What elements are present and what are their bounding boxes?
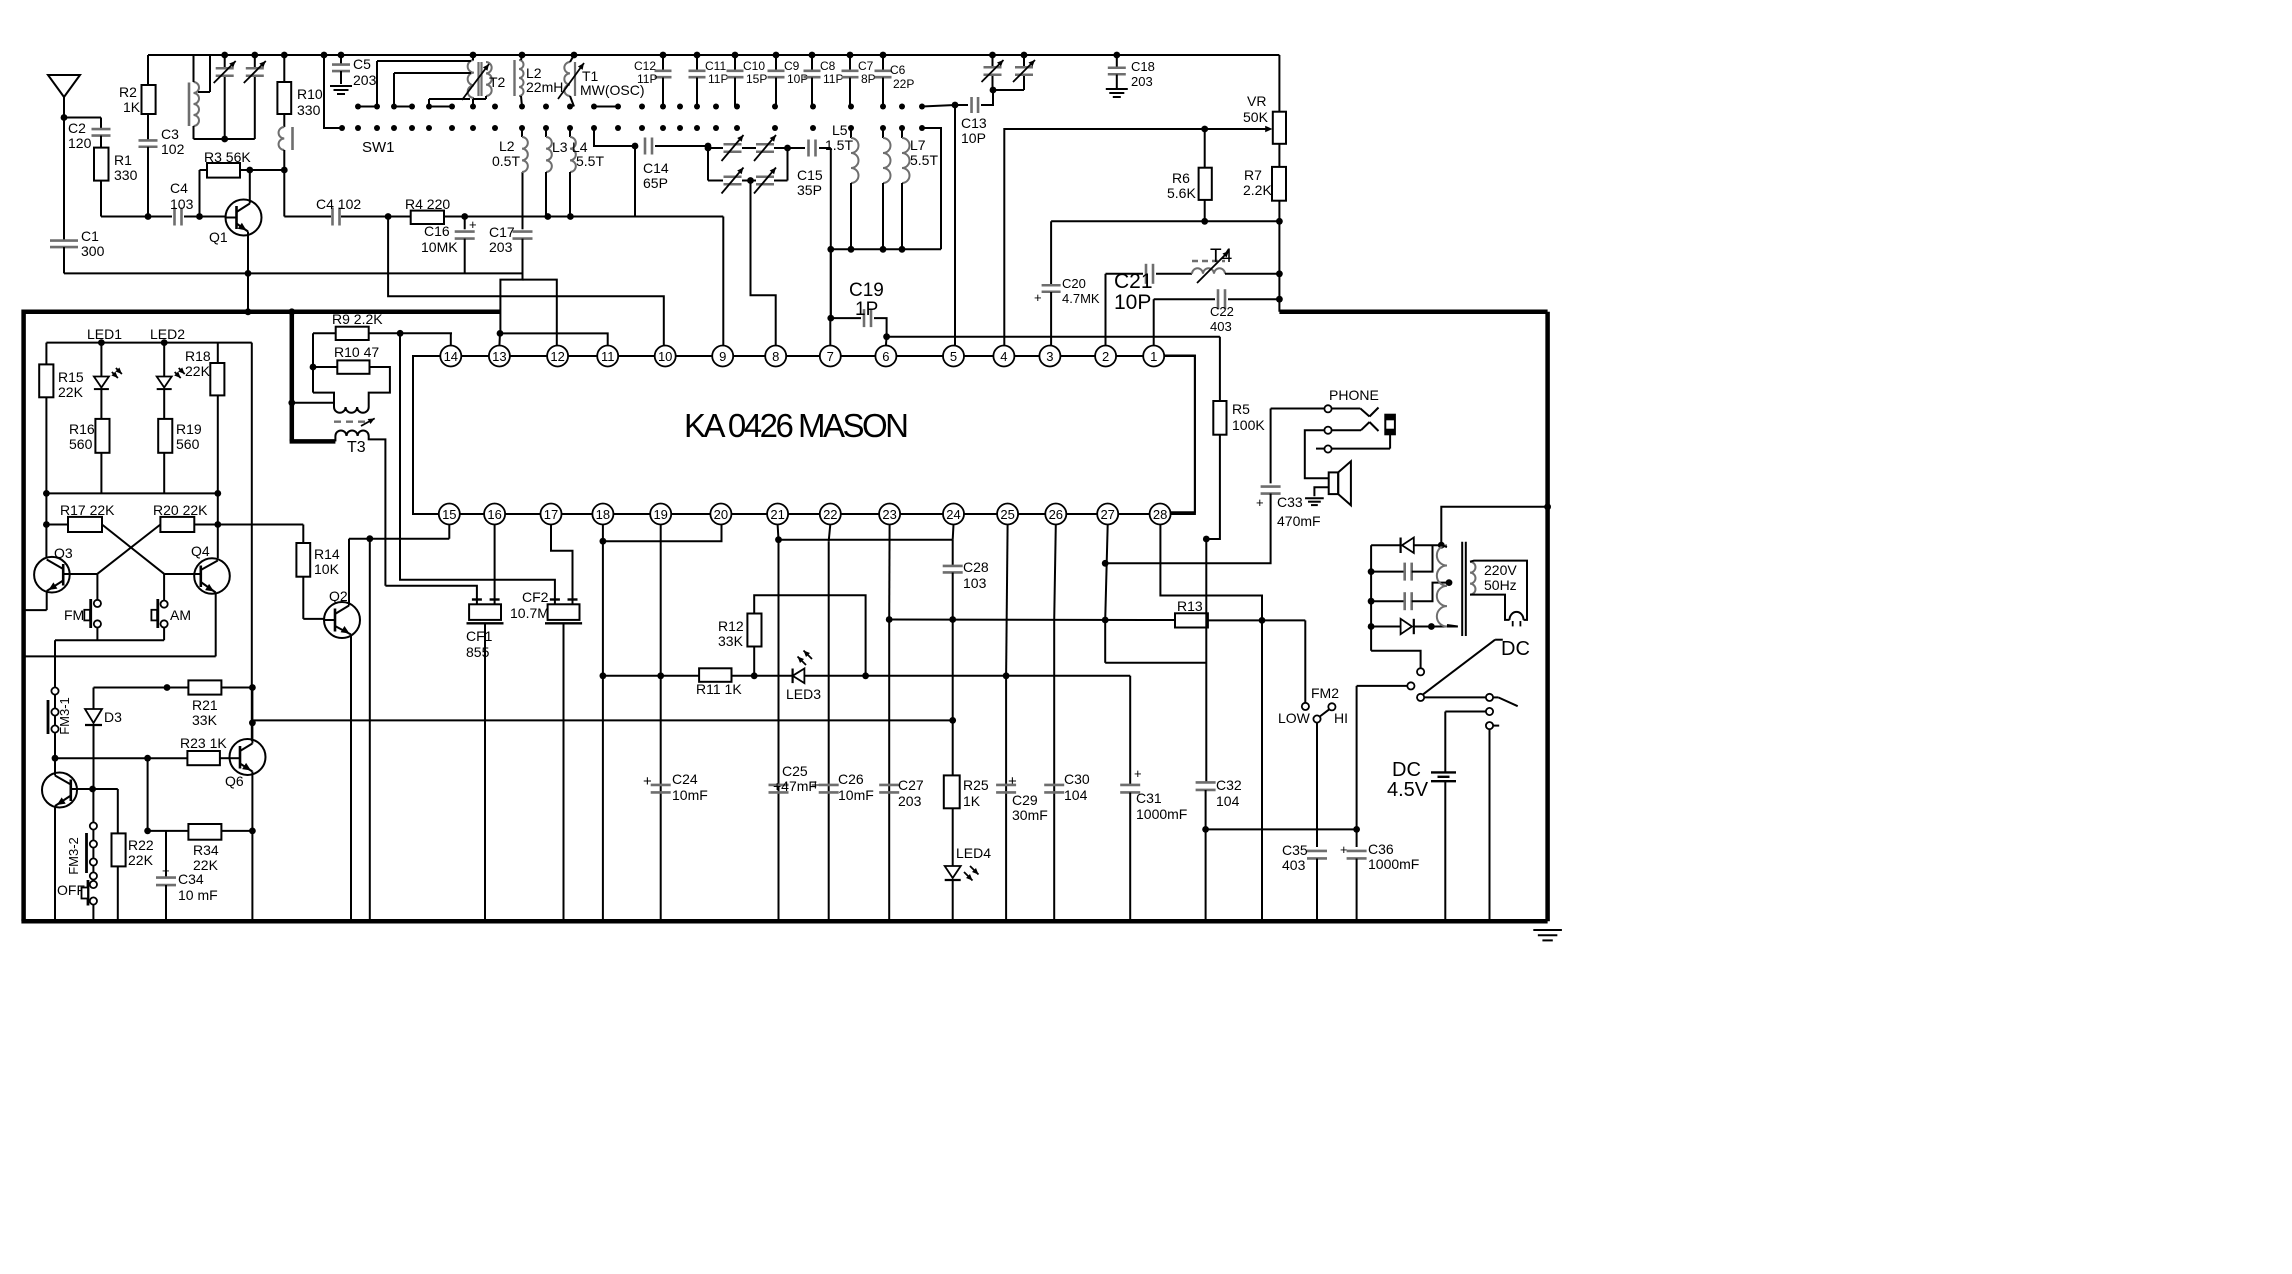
svg-text:20: 20 — [714, 507, 728, 522]
svg-text:10.7M: 10.7M — [510, 605, 549, 621]
capacitor C14 65P — [594, 128, 711, 217]
switch FM3-2 — [66, 789, 97, 880]
wire R23 line — [52, 755, 188, 762]
resistor R23 1K — [180, 735, 230, 765]
svg-text:5.5T: 5.5T — [576, 153, 604, 169]
wire bold T3 feed — [290, 312, 336, 442]
svg-text:R20 22K: R20 22K — [153, 502, 208, 518]
capacitor Cp1 — [1368, 545, 1433, 580]
svg-text:1000mF: 1000mF — [1368, 856, 1419, 872]
push button FM — [64, 574, 101, 640]
wire C32 column — [1203, 536, 1210, 782]
capacitor C2 120 — [64, 118, 111, 152]
svg-text:C6: C6 — [890, 63, 906, 77]
svg-text:104: 104 — [1216, 793, 1240, 809]
svg-text:10mF: 10mF — [672, 787, 708, 803]
svg-text:4.5V: 4.5V — [1387, 779, 1429, 801]
capacitor C35 403 — [1282, 842, 1327, 921]
resistor R9 2.2K — [313, 311, 452, 346]
transformer TR primary — [1437, 542, 1466, 636]
svg-text:R10 47: R10 47 — [334, 344, 379, 360]
capacitor Cp2 — [1368, 579, 1453, 610]
svg-text:C22: C22 — [1210, 304, 1234, 319]
resistor R3 56K — [200, 149, 288, 217]
capacitor C24 10mF — [643, 771, 708, 803]
svg-text:65P: 65P — [643, 175, 668, 191]
svg-text:10P: 10P — [787, 72, 808, 86]
wire cross-coupling X — [97, 525, 164, 574]
diode D1 — [1371, 538, 1445, 554]
resistor R12 33K — [718, 595, 869, 679]
resistor R19 560 — [158, 419, 202, 494]
svg-text:22: 22 — [823, 507, 837, 522]
capacitor C10 15P — [727, 55, 768, 107]
inductor L2 22mH — [515, 55, 564, 107]
wire base line y=216 left segment — [101, 213, 226, 220]
svg-text:KA 0426 MASON: KA 0426 MASON — [684, 407, 909, 444]
svg-text:C32: C32 — [1216, 777, 1242, 793]
capacitor C30 104 — [1044, 771, 1090, 803]
svg-text:LED1: LED1 — [87, 326, 122, 342]
pin 27 — [1097, 504, 1118, 525]
svg-text:LED3: LED3 — [786, 686, 821, 702]
svg-text:R25: R25 — [963, 777, 989, 793]
transformer T1 MW(OSC) (variable) — [558, 55, 645, 107]
pin 8 — [765, 346, 786, 367]
svg-text:R11 1K: R11 1K — [696, 681, 742, 697]
svg-text:28: 28 — [1153, 507, 1167, 522]
svg-text:1.5T: 1.5T — [825, 137, 853, 153]
svg-text:4.7MK: 4.7MK — [1062, 291, 1100, 306]
capacitor C31 1000mF — [1120, 766, 1187, 921]
svg-text:T4: T4 — [1210, 246, 1233, 267]
svg-text:C3: C3 — [161, 126, 179, 142]
wire pin26 column — [1054, 525, 1056, 922]
svg-text:C25: C25 — [782, 763, 808, 779]
variable capacitor FM gang 2x — [982, 55, 1036, 93]
svg-text:30mF: 30mF — [1012, 807, 1048, 823]
pin 20 — [710, 504, 731, 525]
pin 13 — [489, 346, 510, 367]
svg-text:+: + — [1008, 773, 1017, 790]
svg-text:AM: AM — [170, 607, 191, 623]
svg-text:Q3: Q3 — [54, 545, 73, 561]
wire R6/R7 bottom to C20/pin3 — [1051, 221, 1279, 285]
variable capacitor CV2 — [244, 52, 266, 139]
bold enclosure right section top — [1279, 312, 1547, 921]
svg-text:22K: 22K — [128, 852, 154, 868]
wire pin13/pin11 node — [497, 330, 608, 346]
svg-text:330: 330 — [297, 102, 321, 118]
svg-text:23: 23 — [882, 507, 896, 522]
svg-text:1K: 1K — [963, 793, 981, 809]
svg-text:5.6K: 5.6K — [1167, 185, 1196, 201]
svg-text:FM3-2: FM3-2 — [66, 837, 81, 875]
svg-text:33K: 33K — [718, 633, 744, 649]
SW1 band switch lower contact row — [339, 125, 925, 156]
ceramic filter CF2 10.7M — [400, 333, 582, 921]
svg-text:2: 2 — [1102, 349, 1109, 364]
transformer TR secondary 220V — [1470, 561, 1527, 627]
svg-text:+: + — [162, 863, 170, 878]
LED4 — [945, 845, 992, 921]
wire pin22 column — [829, 525, 831, 922]
pin 2 — [1095, 346, 1116, 367]
speaker SP — [1305, 461, 1351, 505]
svg-text:6: 6 — [882, 349, 889, 364]
transistor Q1 — [209, 200, 262, 277]
svg-text:R19: R19 — [176, 421, 202, 437]
svg-text:C7: C7 — [858, 59, 874, 73]
svg-text:27: 27 — [1100, 507, 1114, 522]
pin 19 — [650, 504, 671, 525]
capacitor C20 4.7MK — [1034, 276, 1100, 346]
svg-text:104: 104 — [1064, 787, 1088, 803]
DC jack switch — [1357, 638, 1530, 921]
svg-text:VR: VR — [1247, 93, 1266, 109]
LED1 — [87, 326, 122, 419]
resistor R25 1K — [944, 775, 989, 866]
capacitor C27 203 — [879, 777, 924, 809]
inductor L5 1.5T — [825, 122, 859, 249]
wire pin25 column — [1006, 525, 1008, 922]
svg-text:D3: D3 — [104, 709, 122, 725]
svg-text:5: 5 — [950, 349, 957, 364]
phone jack contact 2 — [1305, 422, 1379, 478]
svg-text:R7: R7 — [1244, 167, 1262, 183]
svg-text:LED2: LED2 — [150, 326, 185, 342]
resistor R10 47 — [310, 333, 390, 407]
svg-text:FM2: FM2 — [1311, 685, 1339, 701]
wire pin18-pin20 link — [600, 525, 722, 922]
svg-text:R17 22K: R17 22K — [60, 502, 115, 518]
variable capacitor CV1 — [214, 52, 236, 139]
svg-text:DC: DC — [1501, 638, 1530, 660]
resistor R22 22K — [93, 789, 154, 921]
pin 6 — [875, 346, 896, 367]
svg-text:C13: C13 — [961, 115, 987, 131]
svg-text:103: 103 — [963, 575, 987, 591]
svg-text:2.2K: 2.2K — [1243, 182, 1272, 198]
wire R7 column down — [1276, 221, 1283, 311]
battery DC 4.5V — [1387, 712, 1456, 922]
pin 23 — [879, 504, 900, 525]
wire VR wiper to pin4 — [1004, 129, 1204, 346]
resistor R6 5.6K — [1167, 129, 1212, 225]
svg-text:15P: 15P — [746, 72, 767, 86]
transistor Q3 — [24, 545, 98, 610]
resistor R14 10K — [296, 525, 339, 619]
svg-text:L5: L5 — [832, 122, 848, 138]
svg-text:22P: 22P — [893, 77, 914, 91]
svg-text:4: 4 — [1000, 349, 1007, 364]
transformer T3 — [288, 393, 385, 586]
svg-text:L2: L2 — [499, 138, 515, 154]
capacitor C11 11P — [689, 55, 729, 107]
svg-text:50Hz: 50Hz — [1484, 577, 1517, 593]
svg-text:R5: R5 — [1232, 401, 1250, 417]
svg-text:203: 203 — [489, 239, 513, 255]
capacitor C13 10P — [922, 90, 993, 146]
capacitor C7 8P — [842, 55, 876, 107]
svg-text:203: 203 — [898, 793, 922, 809]
resistor R11 1K — [696, 668, 758, 697]
svg-text:C36: C36 — [1368, 841, 1394, 857]
svg-text:R22: R22 — [128, 837, 154, 853]
capacitor C26 10mF — [811, 771, 874, 803]
svg-text:C4 102: C4 102 — [316, 196, 361, 212]
svg-text:203: 203 — [1131, 74, 1153, 89]
svg-text:R23 1K: R23 1K — [180, 735, 227, 751]
svg-text:FM3-1: FM3-1 — [57, 697, 72, 735]
wire pin8 column — [751, 278, 776, 346]
svg-text:103: 103 — [170, 196, 194, 212]
resistor R13 — [1175, 598, 1305, 628]
svg-text:DC: DC — [1392, 759, 1421, 781]
svg-text:C26: C26 — [838, 771, 864, 787]
pin 24 — [943, 504, 964, 525]
svg-text:560: 560 — [69, 436, 93, 452]
svg-text:+: + — [811, 777, 820, 794]
pin 11 — [597, 346, 618, 367]
pin 4 — [993, 346, 1014, 367]
transistor Q2 — [303, 588, 360, 921]
wire base line y=216 right segment to pin9 — [284, 213, 723, 345]
svg-text:24: 24 — [946, 507, 960, 522]
svg-text:C28: C28 — [963, 559, 989, 575]
wire SW1 feed from bus — [324, 55, 342, 128]
resistor R34 22K — [144, 758, 256, 921]
inductor L2 0.5T — [492, 128, 528, 172]
svg-text:C11: C11 — [705, 59, 726, 73]
wire Q6 collector node — [249, 688, 256, 742]
svg-text:Q4: Q4 — [191, 543, 210, 559]
bold bottom bus — [21, 919, 1547, 924]
svg-text:7: 7 — [827, 349, 834, 364]
wire long line to R25 y=720 — [252, 717, 956, 724]
svg-text:12: 12 — [550, 349, 564, 364]
resistor R4 220 — [405, 196, 450, 224]
wire R21 line — [94, 684, 256, 691]
antenna coil T (ferrite rod) — [189, 55, 255, 142]
svg-text:C34: C34 — [178, 871, 204, 887]
resistor R17 22K — [43, 493, 115, 557]
svg-text:8P: 8P — [861, 72, 876, 86]
svg-text:120: 120 — [68, 135, 92, 151]
svg-text:R2: R2 — [119, 84, 137, 100]
svg-text:470mF: 470mF — [1277, 513, 1321, 529]
svg-text:R6: R6 — [1172, 170, 1190, 186]
resistor R16 560 — [69, 419, 110, 494]
svg-text:10K: 10K — [314, 561, 340, 577]
transistor Q5 — [42, 758, 96, 921]
wire pin28 bottom jog — [1160, 525, 1262, 922]
svg-text:C12: C12 — [634, 59, 656, 73]
inductor L1 choke — [279, 114, 293, 170]
svg-text:FM: FM — [64, 607, 84, 623]
ceramic filter CF1 855 — [385, 525, 503, 922]
wire AC feed from bold edge — [1441, 503, 1551, 545]
wire button common y=640 — [55, 640, 164, 687]
svg-text:26: 26 — [1049, 507, 1063, 522]
svg-text:11P: 11P — [637, 72, 657, 86]
svg-text:C31: C31 — [1136, 790, 1162, 806]
pin 5 — [943, 346, 964, 367]
capacitor C32 104 — [1196, 777, 1242, 921]
svg-text:R21: R21 — [192, 697, 218, 713]
capacitor C29 30mF — [996, 773, 1048, 823]
wire antenna column — [61, 114, 68, 240]
svg-text:15: 15 — [442, 507, 456, 522]
svg-text:R34: R34 — [193, 842, 219, 858]
phone jack contact 3 — [1316, 434, 1390, 452]
svg-text:PHONE: PHONE — [1329, 387, 1379, 403]
transistor Q4 — [24, 543, 230, 656]
switch FM2 LOW/HI — [1278, 620, 1348, 847]
variable capacitor gang (AM tuning) 4x — [705, 135, 791, 278]
capacitor C21 10P — [1106, 264, 1193, 346]
svg-text:1P: 1P — [855, 299, 878, 320]
svg-text:C21: C21 — [1114, 270, 1153, 293]
wire ground rail y=273 — [64, 272, 523, 274]
capacitor C19 1P — [827, 280, 886, 337]
svg-text:+: + — [1340, 842, 1348, 857]
bold enclosure left box — [24, 310, 501, 922]
wire coil common y=249 — [827, 128, 941, 318]
capacitor C9 10P — [768, 55, 809, 107]
wire box-top dots — [245, 308, 296, 315]
wire C28 to R25 column — [952, 620, 954, 776]
svg-text:C4: C4 — [170, 180, 188, 196]
pin 10 — [655, 346, 676, 367]
wire filter line y=829 — [1206, 826, 1360, 833]
svg-text:10: 10 — [658, 349, 672, 364]
svg-text:C16: C16 — [424, 223, 450, 239]
svg-text:LED4: LED4 — [956, 845, 991, 861]
svg-text:330: 330 — [114, 167, 138, 183]
svg-text:R13: R13 — [1177, 598, 1203, 614]
svg-text:10P: 10P — [1114, 291, 1151, 314]
svg-text:R16: R16 — [69, 421, 95, 437]
capacitor C3 102 — [139, 114, 185, 217]
diode D3 — [85, 688, 122, 787]
pin 22 — [820, 504, 841, 525]
svg-text:100K: 100K — [1232, 417, 1265, 433]
svg-text:HI: HI — [1334, 710, 1348, 726]
svg-text:C30: C30 — [1064, 771, 1090, 787]
svg-text:L3: L3 — [552, 139, 568, 155]
svg-text:R18: R18 — [185, 348, 211, 364]
svg-text:22mH: 22mH — [526, 79, 563, 95]
SW1 band switch upper contact row — [355, 104, 925, 110]
capacitor C25 47mF — [769, 763, 817, 794]
svg-text:C19: C19 — [849, 280, 884, 301]
capacitor C33 470mF — [1105, 409, 1320, 564]
svg-text:R15: R15 — [58, 369, 84, 385]
svg-text:R1: R1 — [114, 152, 132, 168]
wire pin24 column / C28 node — [952, 525, 955, 567]
wire pin28 to pin1 link — [1164, 356, 1195, 513]
svg-text:5.5T: 5.5T — [910, 152, 938, 168]
svg-text:L7: L7 — [910, 137, 926, 153]
svg-text:C15: C15 — [797, 167, 823, 183]
svg-text:50K: 50K — [1243, 109, 1269, 125]
pin 9 — [712, 346, 733, 367]
svg-text:13: 13 — [492, 349, 506, 364]
pin 1 — [1143, 346, 1164, 367]
inductor L4 5.5T — [570, 128, 604, 217]
svg-text:R4 220: R4 220 — [405, 196, 450, 212]
svg-text:CF1: CF1 — [466, 628, 493, 644]
resistor R20 22K — [153, 493, 221, 558]
pin 14 — [440, 346, 461, 367]
wire C17 node to pin12 — [523, 280, 557, 346]
switch FM3-1 — [48, 687, 72, 758]
svg-text:C17: C17 — [489, 224, 515, 240]
LED2 — [150, 326, 185, 419]
svg-text:403: 403 — [1210, 319, 1232, 334]
svg-text:C33: C33 — [1277, 494, 1303, 510]
svg-text:+: + — [1034, 290, 1042, 305]
pin 25 — [997, 504, 1018, 525]
potentiometer VR 50K — [1201, 55, 1286, 144]
capacitor C36 1000mF — [1340, 686, 1419, 921]
pin 12 — [547, 346, 568, 367]
svg-text:11P: 11P — [823, 72, 843, 86]
svg-text:10P: 10P — [961, 130, 986, 146]
svg-text:35P: 35P — [797, 182, 822, 198]
wire LED bottom rail — [43, 490, 221, 497]
svg-text:11P: 11P — [708, 72, 728, 86]
resistor R15 22K — [39, 343, 84, 494]
svg-text:C9: C9 — [784, 59, 800, 73]
svg-text:102: 102 — [161, 141, 185, 157]
svg-text:11: 11 — [601, 349, 615, 364]
wire LED top rail — [46, 339, 251, 741]
svg-text:10mF: 10mF — [838, 787, 874, 803]
svg-text:C27: C27 — [898, 777, 924, 793]
svg-text:Q1: Q1 — [209, 229, 228, 245]
svg-text:16: 16 — [487, 507, 501, 522]
svg-text:Q2: Q2 — [329, 588, 348, 604]
inductor L6 — [883, 128, 891, 249]
capacitor C12 11P — [634, 55, 672, 107]
svg-text:SW1: SW1 — [362, 139, 395, 156]
svg-text:300: 300 — [81, 243, 105, 259]
capacitor C22 403 — [1154, 289, 1280, 345]
svg-text:T3: T3 — [347, 439, 366, 456]
svg-text:0.5T: 0.5T — [492, 153, 520, 169]
pin 18 — [592, 504, 613, 525]
earphone plug — [1385, 415, 1395, 435]
capacitor C18 203 — [1106, 55, 1155, 97]
capacitor C5 203 — [330, 55, 377, 94]
pin 7 — [820, 346, 841, 367]
resistor R18 22K — [185, 343, 224, 494]
inductor L3 — [546, 128, 568, 217]
wire pin10 line — [388, 217, 664, 346]
resistor R2 1K — [119, 55, 156, 115]
svg-text:14: 14 — [444, 349, 458, 364]
wire pin19 column — [660, 525, 662, 922]
capacitor C28 103 — [943, 559, 989, 623]
svg-text:1: 1 — [1150, 349, 1157, 364]
svg-text:560: 560 — [176, 436, 200, 452]
phone jack contact 1 — [1271, 387, 1379, 417]
svg-text:R3 56K: R3 56K — [204, 149, 251, 165]
pin 15 — [439, 504, 460, 525]
capacitor C1 300 — [50, 228, 105, 273]
